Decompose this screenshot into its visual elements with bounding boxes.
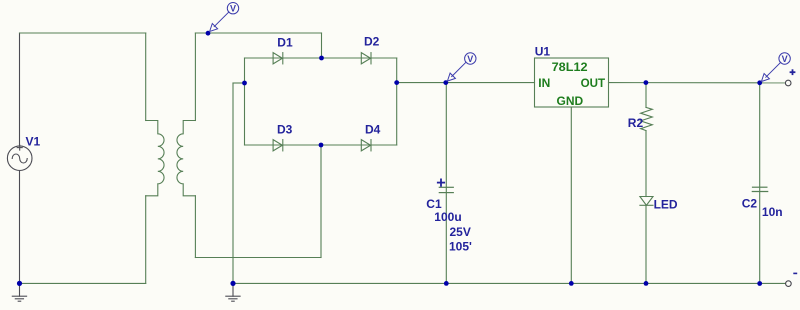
wire bridge right edge (396, 58, 398, 145)
output terminal plus (785, 80, 791, 86)
voltage source V1 symbol (7, 145, 32, 170)
output plus sign (790, 69, 796, 75)
wire ground rail (233, 282, 786, 284)
transformer T1 secondary winding (177, 121, 195, 196)
output terminal minus (786, 281, 792, 287)
wire secondary bottom lead (194, 196, 196, 258)
diode D4 (361, 140, 371, 151)
svg-text:V: V (230, 4, 236, 14)
resistor R2 branch wire top (645, 83, 647, 108)
voltage probe 2 (447, 53, 476, 81)
svg-text:V1: V1 (26, 135, 41, 149)
svg-text:10n: 10n (762, 205, 783, 219)
wire DC minus vertical (232, 83, 234, 283)
resistor R2 zigzag (641, 107, 653, 130)
wire bridge top edge (245, 57, 397, 59)
capacitor C2 branch wire (759, 83, 761, 284)
ground symbol primary (12, 283, 26, 301)
wire V1 bottom lead (19, 171, 21, 284)
svg-text:D2: D2 (364, 35, 380, 49)
diode D3 (273, 140, 283, 151)
wire V1 top lead (19, 33, 21, 146)
svg-text:V: V (467, 54, 473, 64)
wire regulator output rail (609, 82, 786, 84)
svg-text:IN: IN (538, 76, 550, 90)
wire secondary bottom horizontal (195, 257, 321, 259)
svg-text:R2: R2 (628, 116, 644, 130)
capacitor C2 plates (752, 187, 767, 191)
wire DC minus stub (233, 82, 245, 84)
wire primary top lead (145, 33, 147, 121)
ground symbol secondary (226, 283, 240, 301)
wire bridge top feed (321, 33, 323, 58)
svg-text:D4: D4 (365, 122, 381, 136)
wire U1 ground pin (570, 107, 572, 283)
svg-text:105': 105' (449, 239, 472, 253)
wire bridge bottom edge (245, 144, 397, 146)
wire primary top horizontal (20, 32, 146, 34)
svg-text:U1: U1 (535, 45, 551, 59)
wire bridge left edge (244, 58, 246, 145)
regulator U1 box (535, 58, 609, 107)
voltage probe 3 (761, 53, 790, 82)
svg-text:78L12: 78L12 (552, 60, 588, 74)
svg-text:D1: D1 (277, 35, 293, 49)
capacitor C1 branch wire (445, 83, 447, 284)
svg-text:100u: 100u (434, 210, 461, 224)
svg-text:V: V (782, 54, 788, 64)
wire LED to ground rail (645, 205, 647, 283)
wire bridge bottom feed (320, 145, 322, 258)
LED D5 symbol (640, 197, 653, 206)
capacitor C1 plus polarity mark (438, 179, 444, 185)
svg-text:OUT: OUT (581, 76, 606, 90)
wire secondary top lead (194, 33, 196, 121)
output minus sign (793, 272, 797, 274)
wire secondary top horizontal (195, 32, 321, 34)
wire R2 to LED (645, 131, 647, 197)
svg-text:C1: C1 (426, 197, 442, 211)
svg-text:LED: LED (654, 198, 678, 212)
svg-text:C2: C2 (742, 196, 758, 210)
wire primary bottom horizontal (20, 282, 146, 284)
svg-text:25V: 25V (450, 225, 471, 239)
svg-text:GND: GND (557, 94, 584, 108)
voltage probe 1 (210, 3, 239, 32)
capacitor C1 plates (439, 187, 453, 192)
wire DC plus to regulator (397, 82, 535, 84)
diode D1 (273, 53, 283, 64)
transformer T1 primary winding (146, 121, 164, 196)
diode D2 (361, 53, 371, 64)
wire primary bottom lead (145, 196, 147, 284)
svg-text:D3: D3 (277, 122, 293, 136)
junction node dots (17, 31, 762, 286)
